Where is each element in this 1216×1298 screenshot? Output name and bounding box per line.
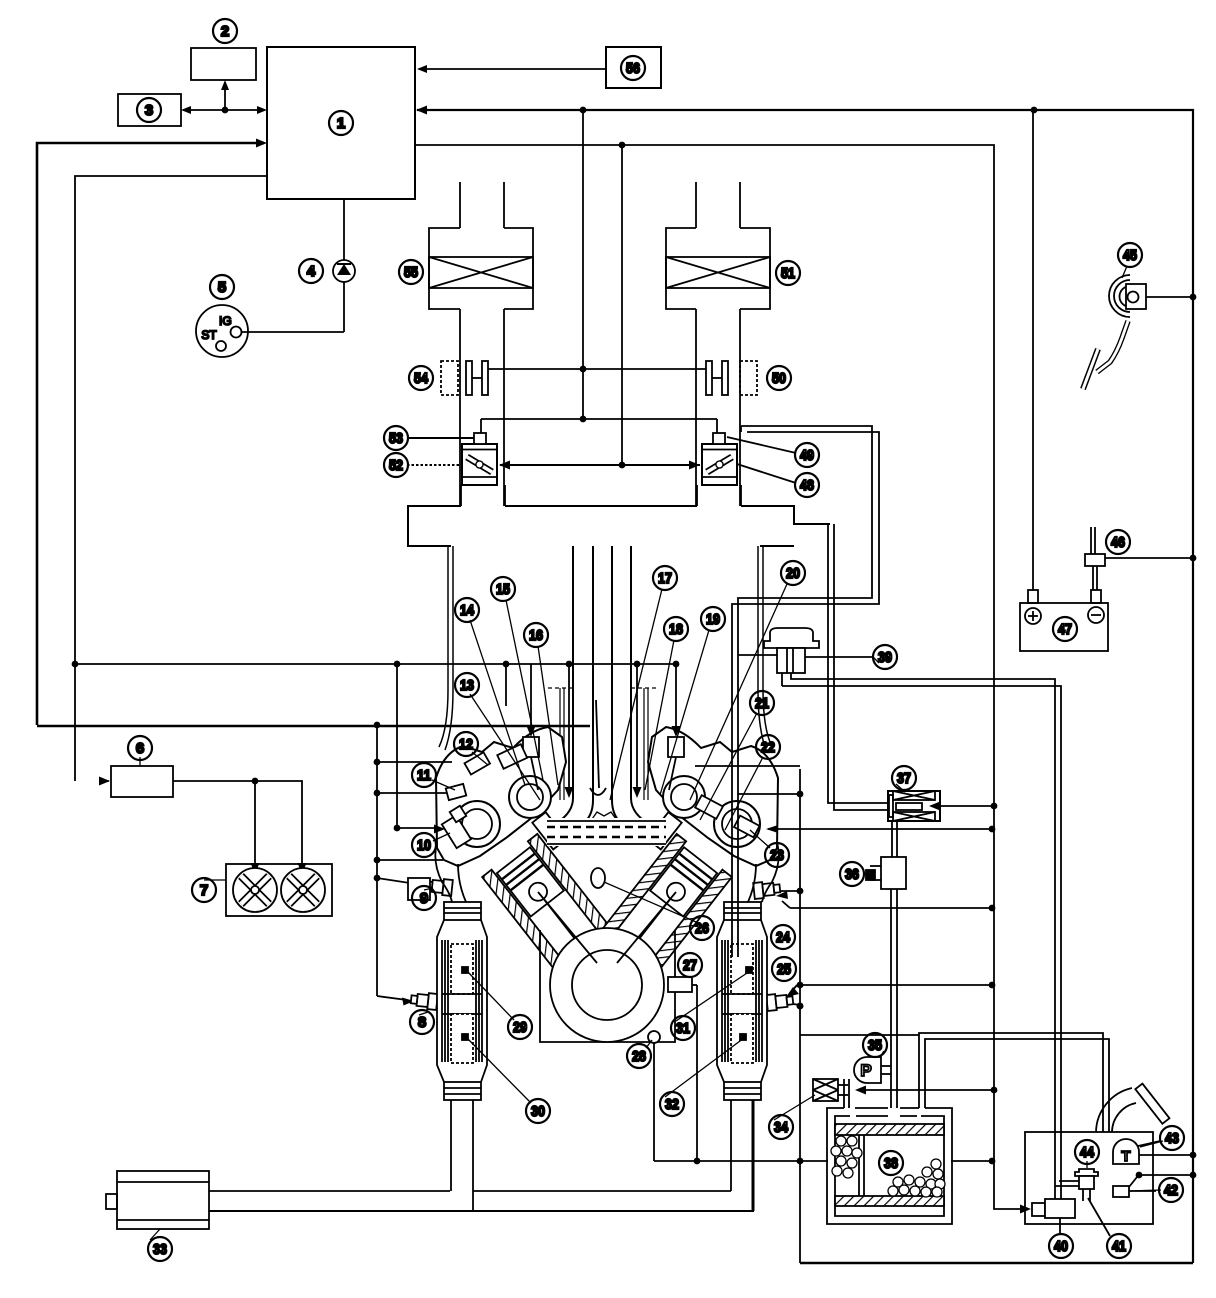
svg-text:49: 49 xyxy=(800,447,814,464)
svg-text:23: 23 xyxy=(770,847,784,864)
svg-text:4: 4 xyxy=(307,263,316,280)
svg-text:P: P xyxy=(860,1061,871,1080)
svg-text:37: 37 xyxy=(897,770,911,787)
svg-text:26: 26 xyxy=(695,920,709,937)
svg-text:40: 40 xyxy=(1054,1238,1068,1255)
svg-text:27: 27 xyxy=(683,957,697,974)
svg-text:44: 44 xyxy=(1080,1144,1095,1161)
svg-text:33: 33 xyxy=(153,1241,167,1258)
svg-text:35: 35 xyxy=(868,1037,882,1054)
svg-text:13: 13 xyxy=(460,677,474,694)
svg-text:IG: IG xyxy=(219,314,232,328)
svg-text:55: 55 xyxy=(404,264,418,281)
svg-text:22: 22 xyxy=(761,739,775,756)
svg-text:41: 41 xyxy=(1112,1238,1126,1255)
svg-text:21: 21 xyxy=(755,695,769,712)
svg-text:19: 19 xyxy=(706,611,720,628)
svg-text:10: 10 xyxy=(417,837,431,854)
svg-text:47: 47 xyxy=(1058,621,1072,638)
svg-text:36: 36 xyxy=(845,866,859,883)
svg-text:3: 3 xyxy=(145,102,153,119)
svg-text:5: 5 xyxy=(218,279,226,296)
svg-text:46: 46 xyxy=(1111,534,1125,551)
svg-text:17: 17 xyxy=(658,570,672,587)
svg-text:25: 25 xyxy=(777,961,791,978)
svg-text:52: 52 xyxy=(389,457,403,474)
svg-text:31: 31 xyxy=(676,1020,690,1037)
svg-text:28: 28 xyxy=(632,1048,646,1065)
svg-text:12: 12 xyxy=(459,736,473,753)
svg-text:53: 53 xyxy=(389,430,403,447)
svg-text:7: 7 xyxy=(200,882,208,899)
svg-text:2: 2 xyxy=(221,23,229,40)
svg-text:15: 15 xyxy=(496,581,510,598)
svg-text:30: 30 xyxy=(531,1103,545,1120)
svg-text:43: 43 xyxy=(1165,1130,1179,1147)
svg-text:29: 29 xyxy=(513,1019,527,1036)
svg-text:39: 39 xyxy=(878,649,892,666)
svg-text:34: 34 xyxy=(774,1119,789,1136)
svg-text:32: 32 xyxy=(665,1096,679,1113)
svg-text:42: 42 xyxy=(1164,1182,1178,1199)
svg-text:54: 54 xyxy=(414,370,429,387)
svg-text:56: 56 xyxy=(626,60,640,77)
svg-text:38: 38 xyxy=(884,1155,898,1172)
svg-text:8: 8 xyxy=(418,1014,426,1031)
svg-text:18: 18 xyxy=(669,621,683,638)
svg-text:45: 45 xyxy=(1123,247,1137,264)
svg-text:14: 14 xyxy=(460,602,475,619)
svg-text:51: 51 xyxy=(781,265,795,282)
svg-text:20: 20 xyxy=(786,565,800,582)
svg-text:50: 50 xyxy=(772,370,786,387)
svg-text:ST: ST xyxy=(201,328,217,342)
svg-text:16: 16 xyxy=(529,627,543,644)
svg-text:11: 11 xyxy=(417,767,431,784)
svg-text:48: 48 xyxy=(800,477,814,494)
svg-text:T: T xyxy=(1121,1148,1130,1165)
svg-text:24: 24 xyxy=(776,929,791,946)
svg-text:1: 1 xyxy=(337,115,345,132)
svg-text:9: 9 xyxy=(420,890,428,907)
svg-text:6: 6 xyxy=(136,740,144,757)
